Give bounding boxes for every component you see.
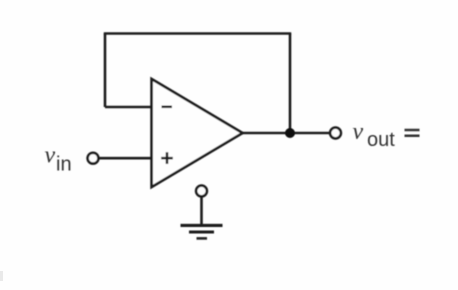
svg-text:v: v [45,143,56,169]
ground symbol bar 2 [189,231,214,234]
terminal: vin input open circle [88,153,99,164]
wire: feedback right vertical segment [289,34,292,134]
op-amp U1 triangle body [152,79,243,187]
wire: inverting input stub [105,106,152,109]
terminal: ground reference open circle [196,186,207,197]
svg-text:out: out [367,129,395,151]
wire: input wire from vin terminal [98,157,152,160]
svg-text:v: v [353,119,364,145]
svg-text:in: in [56,154,72,176]
scan artifact mark at left edge [0,271,3,281]
terminal: vout output open circle [330,128,341,139]
junction dot at output node [285,128,295,138]
wire: output wire [242,132,331,135]
op-amp non-inverting input plus sign [161,152,173,164]
ground symbol bar 3 [197,237,208,240]
wire: feedback left vertical segment [104,34,107,108]
op-amp inverting input minus sign [162,106,173,109]
wire: ground stem [200,196,203,225]
wire: feedback top horizontal segment [104,32,291,35]
equals sign of vout label [405,130,420,136]
ground symbol bar 1 [181,224,223,227]
